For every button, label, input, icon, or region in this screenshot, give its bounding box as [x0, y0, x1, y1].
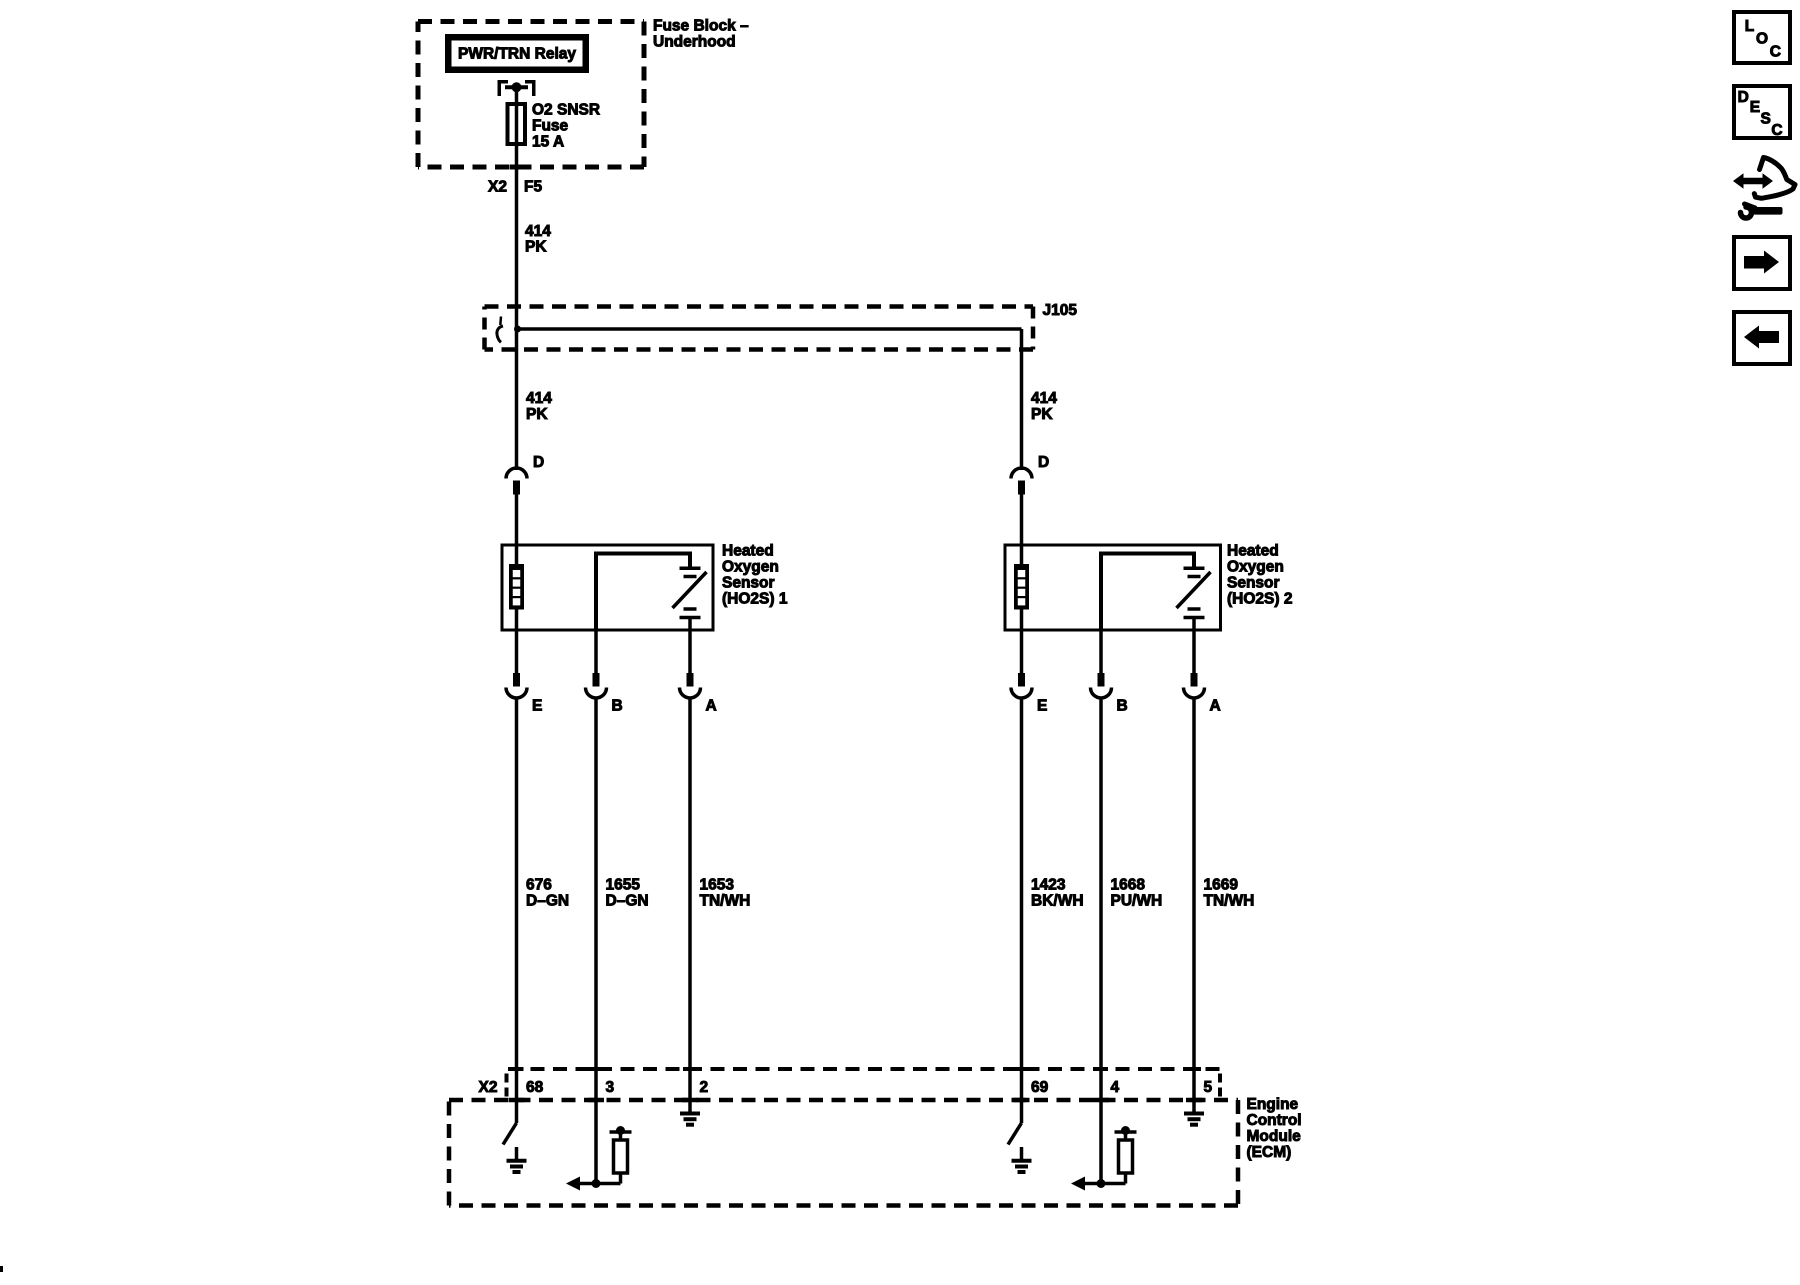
- svg-text:PK: PK: [525, 239, 547, 256]
- label X2 | F5: [488, 179, 542, 196]
- fuse F5 O2 SNSR 15 A: [508, 104, 526, 144]
- label 1669 TN/WH: [1204, 877, 1255, 910]
- label Heated Oxygen Sensor (HO2S) 2: [1227, 543, 1292, 608]
- svg-text:D–GN: D–GN: [526, 893, 569, 910]
- wire D to HO2S1: [515, 495, 519, 546]
- wire HO2S1 pin E upper stub: [515, 630, 519, 673]
- svg-text:D–GN: D–GN: [606, 893, 649, 910]
- svg-text:(ECM): (ECM): [1247, 1144, 1292, 1161]
- wires through strip: [517, 1069, 1195, 1100]
- nav icon next (right arrow) button: [1734, 237, 1790, 289]
- svg-text:TN/WH: TN/WH: [700, 893, 751, 910]
- connector pin D (right): [1011, 468, 1032, 494]
- svg-text:A: A: [706, 698, 717, 715]
- fuse block underhood dashed box: [418, 22, 644, 168]
- svg-text:676: 676: [526, 877, 552, 894]
- svg-text:Sensor: Sensor: [722, 575, 775, 592]
- svg-text:C: C: [1770, 44, 1781, 61]
- wire 1668 PU/WH: [1099, 698, 1103, 1069]
- nav icon back (left arrow) button: [1734, 312, 1790, 364]
- svg-text:68: 68: [526, 1079, 544, 1096]
- svg-text:D: D: [1038, 454, 1049, 471]
- nav icon LOC button: [1734, 12, 1790, 63]
- ECM pin 4 pull-up resistor and signal arrow: [1071, 1100, 1137, 1191]
- splice wire J105 horizontal: [514, 326, 1022, 333]
- label pin 68 (ECM): [526, 1079, 544, 1096]
- svg-text:O: O: [1756, 31, 1768, 48]
- svg-text:414: 414: [525, 223, 551, 240]
- svg-text:3: 3: [606, 1079, 615, 1096]
- label 1423 BK/WH: [1031, 877, 1084, 910]
- label 1655 D–GN: [606, 877, 649, 910]
- connector pin E (HO2S2): [1011, 673, 1032, 698]
- svg-text:Underhood: Underhood: [653, 34, 736, 51]
- label 676 D–GN: [526, 877, 569, 910]
- svg-text:Engine: Engine: [1247, 1096, 1299, 1113]
- svg-text:BK/WH: BK/WH: [1031, 893, 1084, 910]
- svg-text:414: 414: [526, 390, 552, 407]
- svg-text:69: 69: [1031, 1079, 1049, 1096]
- svg-text:D: D: [1738, 89, 1749, 106]
- label pin 2 (ECM): [700, 1079, 709, 1096]
- label 414 PK (upper): [525, 223, 551, 256]
- engine control module (ECM) dashed box: [449, 1098, 1238, 1206]
- wire HO2S1 pin A upper stub: [688, 630, 692, 673]
- svg-text:E: E: [532, 698, 542, 715]
- wire 1653 TN/WH: [688, 698, 692, 1069]
- relay output terminal: [499, 82, 534, 96]
- label pin 4 (ECM): [1111, 1079, 1120, 1096]
- svg-text:E: E: [1750, 99, 1760, 116]
- ECM connector strip X2: [507, 1067, 1221, 1100]
- svg-text:1668: 1668: [1111, 877, 1146, 894]
- ECM pin 69 switch to ground: [1008, 1100, 1032, 1172]
- svg-text:O2 SNSR: O2 SNSR: [532, 102, 600, 119]
- svg-text:(HO2S) 2: (HO2S) 2: [1227, 591, 1292, 608]
- HO2S 2 sense element (variable source): [1177, 568, 1211, 630]
- connector pin A (HO2S2): [1184, 673, 1205, 698]
- label X2 (ECM): [479, 1079, 498, 1096]
- svg-text:1653: 1653: [700, 877, 735, 894]
- wire fuse to X2-F5: [510, 144, 524, 170]
- svg-text:1423: 1423: [1031, 877, 1066, 894]
- svg-text:(HO2S) 1: (HO2S) 1: [722, 591, 788, 608]
- label B (HO2S2): [1117, 698, 1128, 715]
- label Engine Control Module (ECM): [1247, 1096, 1302, 1161]
- connector pin B (HO2S2): [1091, 673, 1112, 698]
- ECM pin 2 ground: [680, 1100, 700, 1125]
- wire relay to fuse: [515, 87, 519, 104]
- splice symbol hook: [497, 317, 503, 343]
- svg-text:PU/WH: PU/WH: [1111, 893, 1163, 910]
- svg-text:B: B: [1117, 698, 1128, 715]
- wire HO2S2 pin A upper stub: [1192, 630, 1196, 673]
- heated oxygen sensor (HO2S) 2 box: [1005, 545, 1221, 630]
- relay PWR/TRN Relay: [448, 37, 586, 70]
- connector pin E (HO2S1): [506, 673, 527, 698]
- svg-text:C: C: [1771, 122, 1782, 139]
- svg-text:Sensor: Sensor: [1227, 575, 1280, 592]
- label 414 PK (right mid): [1031, 390, 1057, 423]
- svg-text:Heated: Heated: [722, 543, 774, 560]
- svg-text:X2: X2: [488, 179, 507, 196]
- label 1653 TN/WH: [700, 877, 751, 910]
- wire 414 PK left drop to HO2S 1: [515, 329, 519, 470]
- wire 1655 D–GN: [594, 698, 598, 1069]
- svg-text:L: L: [1745, 18, 1754, 35]
- label O2 SNSR Fuse 15 A: [532, 102, 600, 151]
- svg-text:Fuse: Fuse: [532, 118, 569, 135]
- svg-text:414: 414: [1031, 390, 1057, 407]
- nav icon diagnostic tools (arrows and wrench): [1733, 158, 1795, 219]
- wire HO2S2 pin E through heater: [1020, 545, 1024, 630]
- label D (left): [533, 454, 544, 471]
- HO2S 2 internal wire to sense element: [1101, 554, 1194, 631]
- label Fuse Block - Underhood: [653, 18, 749, 51]
- page corner mark: [0, 1266, 3, 1272]
- label pin 3 (ECM): [606, 1079, 615, 1096]
- svg-text:E: E: [1037, 698, 1047, 715]
- wire HO2S1 pin E through heater: [515, 545, 519, 630]
- HO2S 1 heater element: [509, 564, 524, 610]
- svg-text:1655: 1655: [606, 877, 641, 894]
- svg-text:2: 2: [700, 1079, 709, 1096]
- svg-text:F5: F5: [524, 179, 542, 196]
- label pin 69 (ECM): [1031, 1079, 1049, 1096]
- svg-text:X2: X2: [479, 1079, 498, 1096]
- svg-text:Module: Module: [1247, 1128, 1302, 1145]
- ECM pin 5 ground: [1184, 1100, 1204, 1125]
- svg-text:5: 5: [1204, 1079, 1213, 1096]
- label E (HO2S1): [532, 698, 542, 715]
- HO2S 1 sense element (variable source): [673, 568, 707, 630]
- wire HO2S1 pin B upper stub: [594, 630, 598, 673]
- svg-text:Control: Control: [1247, 1112, 1302, 1129]
- wire HO2S2 pin E upper stub: [1020, 630, 1024, 673]
- svg-text:PK: PK: [526, 406, 548, 423]
- wire D to HO2S2: [1020, 495, 1024, 546]
- ECM pin 3 pull-up resistor and signal arrow: [566, 1100, 632, 1191]
- splice J105 dashed box: [485, 307, 1034, 350]
- svg-text:15 A: 15 A: [532, 134, 564, 151]
- label pin 5 (ECM): [1204, 1079, 1213, 1096]
- label Heated Oxygen Sensor (HO2S) 1: [722, 543, 788, 608]
- label A (HO2S1): [706, 698, 717, 715]
- label D (right): [1038, 454, 1049, 471]
- svg-text:B: B: [612, 698, 623, 715]
- nav icon DESC button: [1734, 86, 1790, 139]
- wire 1669 TN/WH: [1192, 698, 1196, 1069]
- connector pin A (HO2S1): [680, 673, 701, 698]
- label A (HO2S2): [1210, 698, 1221, 715]
- svg-text:S: S: [1761, 111, 1771, 128]
- HO2S 1 internal wire to sense element: [596, 554, 690, 631]
- svg-text:D: D: [533, 454, 544, 471]
- HO2S 2 heater element: [1014, 564, 1029, 610]
- svg-text:A: A: [1210, 698, 1221, 715]
- label E (HO2S2): [1037, 698, 1047, 715]
- svg-text:4: 4: [1111, 1079, 1120, 1096]
- svg-text:Oxygen: Oxygen: [1227, 559, 1284, 576]
- label 1668 PU/WH: [1111, 877, 1163, 910]
- svg-text:J105: J105: [1043, 302, 1078, 319]
- svg-text:PWR/TRN Relay: PWR/TRN Relay: [458, 46, 576, 63]
- svg-text:Oxygen: Oxygen: [722, 559, 779, 576]
- label B (HO2S1): [612, 698, 623, 715]
- connector pin D (left): [506, 468, 527, 494]
- connector pin B (HO2S1): [586, 673, 607, 698]
- svg-text:Fuse Block –: Fuse Block –: [653, 18, 749, 35]
- svg-text:TN/WH: TN/WH: [1204, 893, 1255, 910]
- wire 676 D–GN: [515, 698, 519, 1069]
- wire 1423 BK/WH: [1020, 698, 1024, 1069]
- wire 414 PK upper segment: [515, 170, 519, 329]
- label 414 PK (left mid): [526, 390, 552, 423]
- svg-text:Heated: Heated: [1227, 543, 1279, 560]
- label J105: [1043, 302, 1078, 319]
- svg-text:1669: 1669: [1204, 877, 1239, 894]
- wire 414 PK right drop to HO2S 2: [1020, 329, 1024, 470]
- svg-text:PK: PK: [1031, 406, 1053, 423]
- heated oxygen sensor (HO2S) 1 box: [502, 545, 713, 630]
- wire HO2S2 pin B upper stub: [1099, 630, 1103, 673]
- ECM pin 68 switch to ground: [503, 1100, 527, 1172]
